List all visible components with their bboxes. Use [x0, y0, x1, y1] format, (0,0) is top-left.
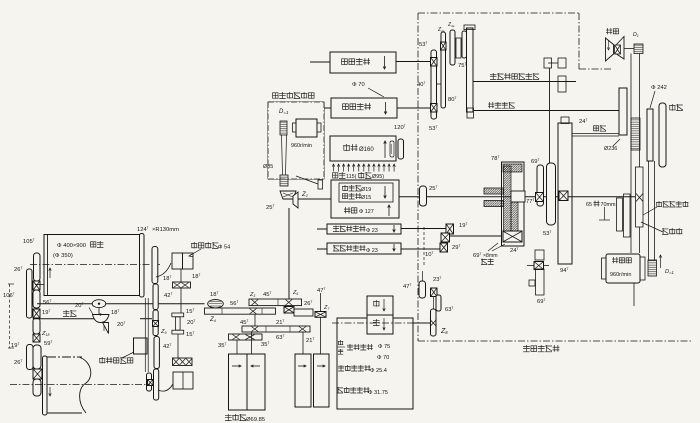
- svg-text:960r/min: 960r/min: [291, 143, 312, 149]
- lizhou shaft seg5: [154, 369, 159, 400]
- up-down roller box: [367, 296, 393, 334]
- spool link down: [177, 334, 179, 358]
- svg-text:Ø15: Ø15: [361, 195, 371, 201]
- crank shaft down: [549, 68, 551, 163]
- shaft bevel to gear bar: [288, 208, 290, 299]
- main belt right: [639, 54, 641, 254]
- fan body: [606, 38, 614, 61]
- gear bar z7: [294, 309, 313, 316]
- pulley right of box: [398, 139, 404, 159]
- belt D1 right: [654, 161, 656, 260]
- svg-text:115(: 115(: [346, 174, 357, 180]
- box front detach roller: [327, 243, 401, 254]
- swing shaft xiban: [474, 110, 619, 112]
- wire stub front: [317, 248, 327, 250]
- label rear draft roller: [338, 365, 370, 371]
- gear 78T left arm lower: [484, 201, 504, 207]
- svg-text:(Φ 350): (Φ 350): [53, 253, 73, 259]
- cone bowl: [93, 315, 110, 323]
- svg-text:Φ 242: Φ 242: [651, 85, 667, 91]
- wire box2 to gear: [397, 107, 433, 109]
- svg-text:Φ 70: Φ 70: [377, 355, 389, 361]
- lizhou shaft seg2: [153, 284, 158, 310]
- arrow row brush: [333, 164, 335, 172]
- label brush separate drive: [273, 92, 315, 99]
- shaft 47T down: [320, 293, 322, 312]
- lower can left wall: [43, 356, 48, 415]
- bracket dashes: [8, 283, 14, 285]
- gear 78T hatched cap: [503, 164, 522, 172]
- svg-text:65: 65: [586, 202, 592, 208]
- roller link a: [236, 340, 238, 354]
- lizhou shaft seg1: [152, 247, 158, 284]
- gearbox dashed border top: [418, 12, 579, 14]
- gear 69T col: [537, 165, 544, 206]
- wire dashed-box to box2: [324, 107, 331, 109]
- link 23-63: [433, 296, 435, 309]
- cone triangles: [103, 323, 109, 334]
- inner dashed line: [423, 227, 425, 266]
- gear z7 low: [315, 312, 326, 318]
- roller link c: [302, 332, 304, 354]
- up arrow in can: [49, 268, 51, 278]
- cone pulley top: [92, 300, 106, 308]
- gear bar2: [249, 299, 302, 306]
- svg-text:Φ 127: Φ 127: [359, 209, 374, 215]
- label handwheel: [669, 104, 683, 111]
- svg-text:Ø160: Ø160: [359, 147, 374, 153]
- svg-text:960r/min: 960r/min: [610, 272, 631, 278]
- wire y265: [527, 265, 534, 267]
- draft box outline: [337, 318, 413, 409]
- wire box1 to gear 53T: [396, 61, 431, 63]
- counter gear capsule: [147, 373, 152, 391]
- press gear bar: [173, 282, 191, 288]
- label fan: [606, 28, 619, 34]
- pulley 25T: [420, 186, 427, 206]
- svg-text:Φ 23: Φ 23: [366, 228, 378, 234]
- svg-text:Φ 70: Φ 70: [352, 82, 365, 88]
- gear 78T inner strip: [504, 166, 512, 233]
- label fuzhou counter shaft: [593, 125, 606, 131]
- main belt left: [630, 54, 632, 254]
- label xilin 127: [344, 207, 357, 213]
- box lap roller 1 (cheng juan luo la): [330, 52, 396, 73]
- counter shaft double line: [572, 133, 619, 135]
- disc phi242: [647, 109, 653, 161]
- wire bevel to brush box: [298, 198, 331, 200]
- swing shaft rear detach: [473, 81, 576, 83]
- gear 63T link: [436, 295, 441, 311]
- eccentric chain x: [534, 262, 544, 270]
- line y318: [33, 318, 102, 320]
- svg-text:Ø85: Ø85: [263, 164, 273, 170]
- leader dividing: [641, 222, 663, 232]
- belt pulley hatched: [631, 118, 640, 150]
- xxx gear bar: [173, 358, 193, 366]
- leader press ecc: [643, 207, 657, 215]
- down arrow lower can: [49, 387, 51, 396]
- coupling small rect: [318, 180, 323, 189]
- label big press roller: [225, 414, 246, 421]
- gear 78T bottom box: [503, 231, 522, 242]
- wire to Z8: [413, 322, 431, 324]
- left shaft gear stack: [34, 253, 41, 281]
- wire front to gear 10T: [401, 248, 441, 250]
- gear 75T tall: [467, 28, 474, 112]
- lower can top: [47, 356, 82, 358]
- svg-text:×8mm: ×8mm: [483, 253, 498, 259]
- label xiban swing axis: [488, 102, 515, 108]
- belt D1 left: [648, 161, 650, 260]
- gearbox dashed border bottom: [418, 340, 693, 342]
- gear Z7 xbox: [284, 307, 294, 314]
- lizhou shaft seg3: [153, 310, 158, 336]
- svg-text:Φ 54: Φ 54: [218, 245, 230, 251]
- roller link b: [251, 332, 253, 354]
- press roller boxes: [172, 253, 183, 269]
- svg-text:Φ 31.75: Φ 31.75: [368, 390, 388, 396]
- belt to counter: [158, 384, 173, 391]
- brush motor: [296, 119, 317, 137]
- eccentric chain lower: [536, 269, 545, 295]
- crank blocks: [544, 58, 552, 68]
- frame line pair: [144, 298, 146, 372]
- dashdot through lower boxes: [332, 322, 431, 324]
- big press roller 1a: [229, 354, 248, 410]
- cone link: [98, 308, 100, 315]
- leader yuantiao: [189, 249, 201, 256]
- gear Z3a: [450, 30, 455, 65]
- pulley D=1: [648, 260, 657, 276]
- label feed roller: [347, 344, 373, 350]
- pulley oval 47: [419, 281, 426, 298]
- fan pulley: [634, 44, 643, 54]
- svg-text:Φ 25.4: Φ 25.4: [370, 368, 387, 374]
- leader counter: [122, 352, 134, 358]
- main shaft line: [399, 196, 635, 198]
- main line y304: [37, 303, 205, 305]
- label dividing disc: [662, 228, 682, 234]
- gearbox dashed border left: [417, 13, 419, 341]
- gear Z8: [431, 309, 437, 336]
- gear 78T body: [502, 162, 525, 246]
- main motor: [606, 254, 640, 283]
- can right wall 124T: [140, 234, 145, 298]
- fan arrow: [608, 40, 610, 50]
- gear 78T lower strip: [511, 202, 518, 231]
- label eccentric: [481, 259, 494, 265]
- thin gear 26T b: [27, 345, 34, 370]
- label length counter: [99, 357, 133, 363]
- motor shaft down: [633, 283, 635, 306]
- brush lower pulley: [280, 175, 288, 186]
- box lap roller 2: [331, 98, 397, 118]
- svg-text:×R130mm: ×R130mm: [152, 227, 179, 233]
- wire fan to pulley: [625, 48, 635, 50]
- wire diag to coupling: [296, 176, 318, 184]
- gear 94T: [558, 123, 572, 264]
- svg-text:D=1: D=1: [279, 109, 289, 115]
- wire rear to gear 19T: [401, 228, 447, 230]
- svg-text:70mm: 70mm: [601, 202, 616, 208]
- big press roller 2a: [295, 354, 311, 407]
- counter drive box: [173, 372, 193, 389]
- box full width O160: [330, 136, 396, 161]
- gearbox dashed stub to fan: [579, 68, 612, 70]
- gearbox dashed border right upper: [578, 13, 580, 69]
- big press roller 1b: [247, 354, 265, 410]
- bevel gear Z2: [280, 191, 296, 199]
- press rects: [617, 198, 623, 231]
- brush belt: [282, 135, 283, 175]
- gear Z2a: [441, 32, 446, 108]
- label press eccentric: [656, 201, 688, 207]
- brush motor pulley: [280, 121, 287, 135]
- svg-text:Φ 400×900: Φ 400×900: [57, 243, 86, 249]
- svg-text:Ø19: Ø19: [361, 187, 371, 193]
- link bar1-bar3: [254, 314, 256, 326]
- gear 29T: [440, 243, 448, 252]
- lizhou X: [153, 321, 159, 327]
- wire y236 to gear78: [449, 235, 501, 237]
- svg-text:D=1: D=1: [665, 269, 674, 275]
- gear 53-40-53 shaft: [431, 50, 437, 119]
- wire stub left of box1: [310, 61, 330, 63]
- svg-text:Ø236: Ø236: [604, 146, 617, 152]
- stub y285: [35, 284, 44, 286]
- gear small E: [462, 31, 467, 58]
- box feed comb rollers: [331, 180, 399, 218]
- pulley O236: [619, 88, 627, 135]
- leader eccentric lines: [488, 243, 498, 251]
- arrow D=1: [660, 255, 662, 268]
- gear 23T: [431, 288, 438, 297]
- counter box: [134, 338, 148, 354]
- lizhou shaft seg4: [154, 337, 159, 369]
- wire stub rear: [317, 228, 327, 230]
- gear X on belt: [636, 167, 644, 227]
- lower can scroll end: [80, 358, 91, 414]
- gear bar1: [205, 308, 276, 314]
- bracket 65-70: [604, 207, 606, 220]
- svg-text:Ø69.85: Ø69.85: [246, 417, 265, 423]
- leader phi242: [650, 91, 655, 108]
- spool gear: [172, 313, 184, 317]
- gear small D: [456, 38, 461, 58]
- gear mid: [441, 233, 450, 242]
- belt S curve: [156, 263, 171, 277]
- gear bar4: [229, 334, 263, 340]
- label gearbox name: [523, 345, 559, 352]
- link A-B: [437, 83, 442, 85]
- lower can centerline: [10, 384, 150, 386]
- gear 53T col: [547, 163, 556, 225]
- gear 78T left arm upper: [484, 188, 504, 194]
- stub above oval: [422, 271, 424, 281]
- label front draft roller: [337, 387, 369, 393]
- svg-text:Ø95): Ø95): [372, 174, 384, 180]
- label rear detach swing axis: [490, 73, 539, 80]
- can centerline: [30, 264, 160, 266]
- gear 78T hub box: [511, 191, 525, 202]
- dashed box brush motor: [268, 102, 324, 179]
- svg-text:Φ 75: Φ 75: [378, 344, 390, 350]
- box rear detach roller: [327, 224, 401, 234]
- leader O236: [613, 139, 620, 146]
- svg-text:Φ 23: Φ 23: [366, 248, 378, 254]
- label brush 115 min O95: [333, 172, 346, 178]
- fan hub: [615, 45, 621, 54]
- big press roller 2b: [314, 354, 330, 407]
- thin gear 26T: [27, 269, 33, 318]
- can box phi400: [44, 235, 140, 296]
- eccentric chain upper: [535, 250, 544, 260]
- lower can bottom: [47, 412, 82, 414]
- label shang/xia fraction: [338, 340, 343, 345]
- handwheel: [659, 103, 666, 167]
- label lizhou: [63, 310, 76, 316]
- gear 19T: [446, 224, 454, 234]
- label yuantiao press roller: [191, 242, 218, 248]
- press links: [180, 269, 182, 282]
- pulley Z4 oval: [208, 300, 224, 308]
- gear bar3: [242, 326, 310, 332]
- leader Phi70: [368, 88, 384, 97]
